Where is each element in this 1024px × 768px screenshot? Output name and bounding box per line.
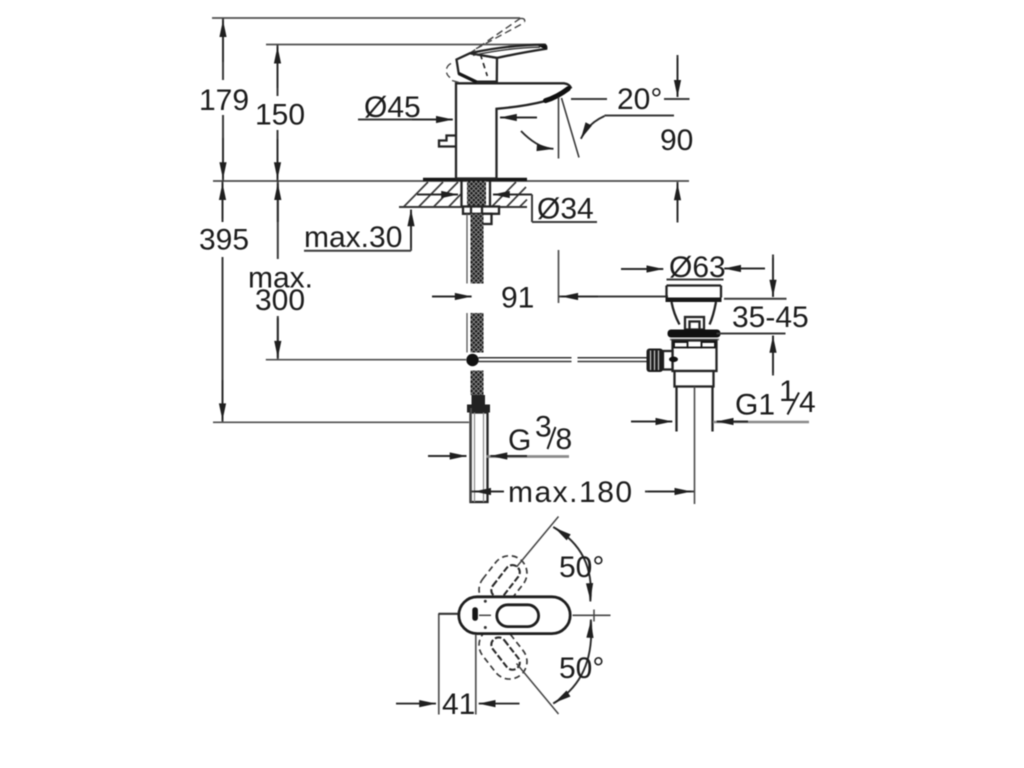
angle arc left: [521, 131, 550, 149]
svg-text:4: 4: [799, 386, 816, 419]
counter hatching: [404, 182, 527, 207]
swivel envelope upper inner dashed: [488, 562, 522, 600]
extension line top (raised handle height): [212, 17, 520, 19]
drain funnel rim band: [666, 298, 722, 303]
swivel envelope lower inner dashed: [488, 635, 522, 673]
aerator dark crescent: [546, 89, 569, 101]
svg-text:Ø34: Ø34: [537, 193, 594, 226]
pull rod ball joint: [466, 354, 478, 366]
dim 150 line: [277, 45, 279, 97]
angle leg lower: [517, 664, 559, 715]
stream angled line: [562, 98, 580, 158]
drain funnel: [667, 284, 722, 286]
svg-text:G1: G1: [735, 389, 775, 422]
svg-text:41: 41: [442, 688, 475, 721]
handle pivot block: [457, 53, 498, 81]
shank flange washer: [463, 207, 499, 214]
label 20° leader lines: [571, 98, 607, 100]
faucet shank wall left: [460, 181, 462, 207]
swivel envelope lower outer dashed: [472, 620, 534, 686]
countertop line: [213, 180, 689, 182]
flexible hose lower segment: [471, 371, 484, 396]
extension line closed handle height: [266, 44, 546, 46]
dim 179 line: [222, 18, 224, 80]
dim max.300 line: [277, 181, 279, 259]
dim Ø45: [358, 119, 442, 121]
dim 395 line: [222, 181, 224, 219]
pop-up rod double line: [479, 357, 572, 359]
svg-text:50°: 50°: [559, 652, 604, 685]
spout side arrow of Ø45: [500, 117, 537, 119]
drain plug cage: [685, 317, 704, 330]
dim max.30 leader: [304, 250, 411, 252]
drain locknut flange: [675, 371, 714, 387]
flexible hose upper segment: [466, 214, 468, 284]
dim 41: [438, 614, 440, 715]
body left tab: [439, 136, 456, 147]
svg-text:Ø63: Ø63: [669, 251, 726, 284]
faucet body and spout silhouette: [456, 83, 571, 178]
shank threaded braid: [467, 181, 486, 207]
drain body: [673, 341, 717, 372]
angle arc right: [583, 116, 605, 136]
drain center line: [694, 387, 696, 505]
top view handle slot: [497, 605, 539, 627]
dim max.180: [470, 408, 472, 502]
svg-text:8: 8: [556, 423, 573, 456]
angle arc upper 50: [553, 527, 591, 602]
angle leg upper: [517, 517, 559, 568]
faucet top view body: [459, 597, 570, 634]
svg-text:150: 150: [255, 99, 305, 132]
svg-text:395: 395: [199, 224, 249, 257]
drain washer: [670, 339, 719, 341]
dim Ø34 arrows: [417, 194, 458, 196]
faucet shank wall right: [489, 181, 491, 207]
G3/8 connector nut: [467, 405, 490, 413]
bottom reference line 395: [213, 421, 469, 423]
faucet base plate edge: [423, 178, 527, 181]
angle arc lower 50: [553, 620, 591, 704]
horizontal pop-up rod reference line: [266, 359, 466, 361]
svg-text:179: 179: [199, 84, 249, 117]
top view center line right: [573, 614, 611, 616]
svg-text:300: 300: [255, 284, 305, 317]
dim 35-45: [724, 298, 787, 300]
top view left stub: [439, 613, 458, 615]
dim G3/8: [428, 455, 467, 457]
drain cone sides: [672, 302, 680, 325]
drain gasket: [668, 330, 721, 338]
svg-text:20°: 20°: [617, 83, 662, 116]
countertop bottom line: [399, 206, 527, 208]
dim 90 arrows: [677, 55, 679, 97]
svg-text:max.180: max.180: [508, 476, 634, 509]
G3/8 pipe: [471, 413, 488, 503]
svg-text:50°: 50°: [559, 551, 604, 584]
svg-text:3: 3: [535, 411, 552, 444]
drain rod boss: [663, 351, 673, 370]
top view indicator bar: [472, 607, 478, 620]
flexible hose middle segment: [466, 313, 468, 353]
top view center dots: [484, 600, 487, 603]
rod knob: [647, 349, 664, 373]
dim G1 1/4: [631, 421, 672, 423]
dim Ø63: [621, 268, 663, 270]
stream vertical reference line: [558, 97, 560, 159]
svg-text:90: 90: [660, 124, 693, 157]
svg-text:Ø45: Ø45: [364, 91, 421, 124]
raised handle phantom lines: [446, 18, 524, 82]
drain tailpipe: [675, 387, 677, 432]
swivel envelope upper outer dashed: [472, 549, 534, 615]
svg-text:G: G: [508, 424, 531, 457]
dim 91: [558, 250, 560, 303]
shank nut: [482, 214, 492, 224]
handle lever blade: [470, 45, 547, 58]
G3/8 connector upper: [472, 395, 486, 405]
svg-text:max.30: max.30: [304, 221, 402, 254]
svg-text:91: 91: [501, 282, 534, 315]
svg-text:35-45: 35-45: [732, 301, 809, 334]
